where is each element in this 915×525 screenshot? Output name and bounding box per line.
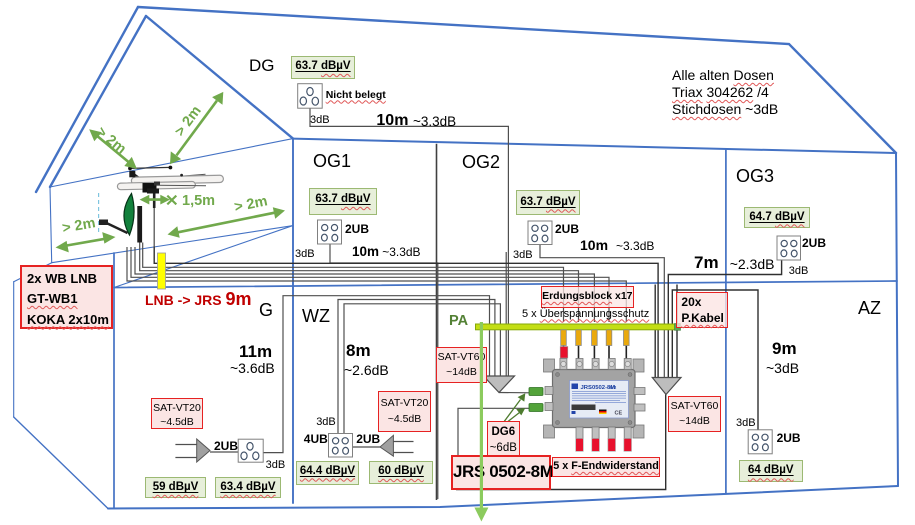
svg-text:5/2: 5/2 <box>610 385 617 390</box>
svg-text:CE: CE <box>615 411 623 417</box>
